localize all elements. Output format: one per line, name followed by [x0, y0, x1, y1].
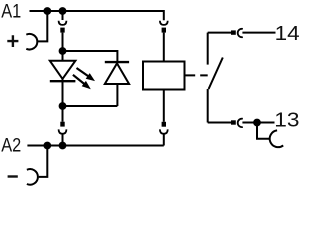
wire contact top to terminal 14 [208, 32, 231, 34]
node junction dot A2-left [43, 142, 51, 150]
pin tip square (relay coil top) [162, 28, 166, 33]
freewheeling diode D2 bar (cathode, top) [105, 61, 129, 63]
pin tip square (relay coil bottom) [162, 122, 166, 127]
svg-text:14: 14 [275, 23, 300, 45]
wire socket stem to A2 rail end [163, 134, 165, 146]
wire top of parallel LED/diode loop [63, 51, 118, 61]
wire 13 dot down to output clamp [257, 123, 270, 139]
contact moving blade [209, 58, 223, 90]
freewheeling diode D2 triangle [105, 63, 129, 84]
minus sign [8, 175, 18, 177]
node junction dot A1-right [59, 7, 67, 15]
socket arc below A1 rail (coil branch) [160, 21, 168, 25]
node junction dot A2-right [59, 142, 67, 150]
LED emission arrow 2 [73, 75, 85, 85]
mechanical link (dashed) coil to contact [185, 74, 207, 76]
wire from A2-left dot down to minus clamp [39, 146, 48, 177]
contact fixed terminal top [207, 33, 209, 65]
LED emission arrow 1 [77, 68, 89, 76]
wire pin down to LED branch node [62, 33, 64, 51]
wire from A1-left dot down to plus clamp [38, 11, 48, 41]
contact fixed terminal bottom [207, 89, 209, 123]
wire pin down to coil [163, 33, 165, 62]
wire socket stem to A2 rail [62, 134, 64, 146]
socket arc (plug-in connection) below A1-right dot [62, 11, 64, 20]
LED D1 triangle [50, 61, 76, 79]
svg-text:A1: A1 [1, 1, 21, 23]
wire contact bottom to terminal 13 [208, 122, 231, 124]
socket arc on 13 line [238, 119, 243, 127]
wire to terminal 13 label [242, 122, 274, 124]
pin tip square on 14 line [231, 30, 236, 34]
LED cathode wire down [62, 79, 64, 106]
relay coil K1 [143, 62, 185, 90]
terminal clamp plus (CAGE CLAMP arc) [26, 34, 37, 50]
terminal clamp 13 output (rotated CAGE CLAMP arc) [270, 130, 284, 147]
node junction dot A1-left [43, 7, 51, 15]
wire A2 horizontal rail [27, 145, 163, 147]
pin tip square on 13 line [231, 120, 236, 124]
socket arc above A2 rail (LED branch) [59, 129, 67, 133]
wire bottom of parallel LED/diode loop [63, 105, 118, 107]
socket arc above A2 rail (coil branch) [160, 129, 168, 133]
node junction dot on 13 line [253, 119, 261, 127]
socket arc on 14 line [238, 29, 243, 37]
svg-text:A2: A2 [1, 135, 21, 157]
svg-text:13: 13 [274, 109, 299, 131]
pin tip square (relay pin, LED branch bottom) [60, 122, 64, 127]
LED D1 cathode bar [50, 80, 76, 82]
wire LED branch down to pin [62, 106, 64, 122]
node junction dot LED-bottom [59, 102, 67, 110]
node junction dot LED-top [59, 47, 67, 55]
wire to terminal 14 label [242, 32, 275, 34]
wire coil bottom down to pin [163, 90, 165, 122]
wire A1 horizontal rail to coil branch corner [30, 11, 164, 20]
LED D1 anode wire [62, 51, 64, 61]
terminal clamp minus (CAGE CLAMP arc) [27, 169, 38, 185]
pin tip square (relay pin, LED branch top) [60, 28, 64, 33]
diode D2 anode wire to bottom loop wire [116, 84, 118, 106]
plus sign [7, 35, 18, 47]
